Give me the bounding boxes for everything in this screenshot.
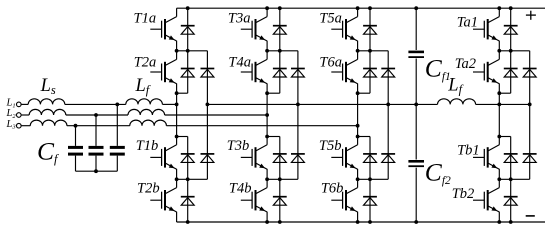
node diode column A leg2 bottom mid [278,177,282,181]
node output leg top rail [497,6,501,10]
wire clamp column B leg1 [206,51,208,180]
node leg1 phase connection [175,103,179,107]
wire leg1 top mid horizontal [177,50,208,52]
wire leg2 collector drop T3b [266,137,268,145]
node tap Cf phase 3 [74,124,78,128]
wire diode column A leg1 top [187,8,189,93]
node leg2 phase connection [265,113,269,117]
svg-text:T3a: T3a [228,10,251,26]
wire diode column A leg2 top [279,8,281,93]
diode Dca2 [523,69,537,78]
wire leg3 emitter T5a to mid [357,41,359,51]
inductor coil Lf output [438,99,476,105]
wire leg1 phase to bottom jog [176,104,178,136]
wire Lf to output leg [476,103,500,105]
node tap Cf phase 2 [94,113,98,117]
diode Dc1b [201,154,215,163]
diode D6a [363,69,377,78]
node diode column A output mid [509,49,513,53]
wire Ls to Lf phase 3 [67,125,130,127]
transistor T1b [150,145,176,169]
diode D3b [273,154,287,163]
inductor coil Ls phase 1 [28,99,65,105]
node leg2 bottom jog [265,135,269,139]
wire leg2 jog horizontal [267,92,280,94]
node centre rail top [414,6,418,10]
wire output leg top mid horizontal [499,50,529,52]
wire output leg collector drop Tb1 [498,137,500,145]
node diode column A output top rail [509,6,513,10]
wire Ls to Lf phase 1 [65,103,126,105]
wire terminal L1 to Ls [21,103,28,105]
wire leg3 bottom mid horizontal [358,178,389,180]
svg-text:T3b: T3b [227,138,250,154]
input terminal L2 [17,113,22,118]
wire leg1 bottom mid horizontal [177,178,208,180]
node clamp leg3 on midpoint line [386,103,390,107]
svg-text:T5b: T5b [319,138,342,154]
wire centre rail upper [415,8,417,50]
svg-text:T1b: T1b [136,138,159,154]
wire leg3 collector drop T5a [357,8,359,16]
wire leg2 bottom jog horizontal [267,136,280,138]
node leg1 top mid [175,49,179,53]
wire leg1 mid to T2a [176,51,178,60]
wire centre rail lower [415,168,417,222]
wire tap to Cf cap 1 [116,104,118,145]
node leg2 top mid [265,49,269,53]
label + terminal [526,11,536,20]
svg-text:T4b: T4b [229,180,252,196]
diode D2b [181,197,195,206]
wire leg2 collector drop T3a [266,8,268,16]
wire tap to Cf cap 2 [95,115,97,146]
wire Cf cap 3 to star bus [75,156,77,172]
wire leg2 mid to T4b [266,179,268,187]
wire diode column A output bottom [510,137,512,223]
wire diode column A output top [510,8,512,93]
diode Db1 [504,154,518,163]
transistor Tb1 [473,145,499,169]
svg-text:T5a: T5a [319,10,342,26]
diode Da2 [504,69,518,78]
wire terminal L3 to Ls [21,125,30,127]
wire diode column A leg1 bottom [187,137,189,223]
node clamp leg1 on midpoint line [206,103,210,107]
wire leg3 bottom jog horizontal [358,136,370,138]
capacitor Cf2 [408,160,424,167]
wire clamp column B leg2 [297,51,299,180]
wire diode column A leg2 bottom [279,137,281,223]
wire phase 2 to leg2 [165,114,268,116]
diode Dc3a [291,69,305,78]
wire leg1 collector drop T1b [176,137,178,145]
diode Dc5b [381,154,395,163]
svg-text:T2b: T2b [137,180,160,196]
svg-text:Ta1: Ta1 [457,15,478,31]
wire output leg emitter Ta1 to mid [498,41,500,51]
node leg3 emitter on bottom rail [356,220,360,224]
wire output leg midpoint to bottom jog [498,104,500,136]
node leg3 bottom jog [356,135,360,139]
diode D5a [363,26,377,35]
wire leg3 emitter T6b to rail [357,212,359,222]
node leg2 emitter jog [265,91,269,95]
wire output leg mid to Tb2 [498,179,500,187]
wire centre rail middle [415,59,417,160]
node leg3 emitter jog [356,91,360,95]
inductor coil Lf phase 3 [130,120,167,126]
wire output leg emitter Ta2 down [498,84,500,94]
node diode column A output bottom rail [509,220,513,224]
node leg3 top mid [356,49,360,53]
wire output leg emitter Tb2 to rail [498,212,500,222]
node midpoint at centre rail [414,103,418,107]
svg-text:Tb1: Tb1 [457,142,480,158]
diode D5b [363,154,377,163]
wire output leg bottom jog horizontal [499,136,510,138]
wire leg1 collector drop T1a [176,8,178,16]
transistor T3a [241,17,267,41]
wire bottom DC rail [177,221,545,223]
diode D3a [273,26,287,35]
diode D4a [273,69,287,78]
transistor T2a [150,59,176,83]
diode D1b [181,154,195,163]
wire leg1 emitter T2b to rail [176,212,178,222]
transistor T4b [241,188,267,212]
node diode column A leg2 bottom rail [278,220,282,224]
node output leg bottom rail [497,220,501,224]
wire leg2 bottom mid horizontal [267,178,298,180]
node leg3 phase connection [356,124,360,128]
node leg3 collector on top rail [356,6,360,10]
wire leg1 bottom jog horizontal [177,136,188,138]
wire leg2 emitter T4b to rail [266,212,268,222]
capacitor Cf1 [408,51,424,58]
node output leg top mid [497,49,501,53]
node diode column A leg2 top rail [278,6,282,10]
wire leg2 emitter T3a to mid [266,41,268,51]
node diode column A leg1 bottom rail [186,220,190,224]
wire terminal L2 to Ls [21,114,29,116]
inductor coil Ls phase 2 [29,109,66,115]
wire leg1 mid to T2b [176,179,178,187]
wire Cf cap 2 to star bus [95,156,97,172]
wire phase 3 to leg3 [166,125,357,127]
wire output leg mid to Ta2 [498,51,500,60]
node leg1 bottom mid [175,177,179,181]
wire diode column A leg3 top [369,8,371,93]
wire leg1 emitter T2a down [176,84,178,94]
wire midpoint to clamp column B [499,103,529,105]
diode Db2 [504,197,518,206]
capacitor Cf cap phase 2 [89,146,104,156]
inductor coil Lf phase 2 [128,109,165,115]
transistor T6b [331,188,357,212]
node diode column A leg1 top rail [186,6,190,10]
wire output leg jog horizontal [499,92,510,94]
transistor Ta1 [473,17,499,41]
wire clamp line [207,103,416,105]
diode D2a [181,69,195,78]
wire leg3 jog horizontal [358,92,370,94]
wire output leg bottom mid horizontal [499,178,529,180]
svg-text:T1a: T1a [134,10,157,26]
capacitor Cf cap phase 1 [110,146,125,156]
wire Cf star bus [76,170,118,172]
wire leg2 to phase line [266,93,268,115]
node leg2 emitter on bottom rail [265,220,269,224]
node output leg bottom mid [497,177,501,181]
node diode column A leg3 bottom rail [368,220,372,224]
wire leg2 top mid horizontal [267,50,298,52]
wire leg3 mid to T6a [357,51,359,60]
wire leg1 emitter T1b to mid [176,169,178,179]
node diode column A output bottom mid [509,177,513,181]
wire leg3 to phase line [357,93,359,126]
transistor T6a [331,59,357,83]
wire leg3 emitter T5b to mid [357,169,359,179]
wire leg2 emitter T3b to mid [266,169,268,179]
svg-text:T6a: T6a [319,55,342,71]
svg-text:Ta2: Ta2 [455,56,476,72]
label - terminal [526,215,535,217]
input terminal L1 [17,102,22,107]
transistor T4a [241,59,267,83]
svg-text:T4a: T4a [228,55,251,71]
node tap Cf phase 1 [115,103,119,107]
inductor coil Ls phase 3 [30,120,67,126]
wire phase 1 to leg1 [162,103,176,105]
wire clamp column B output [529,51,531,180]
svg-text:T2a: T2a [134,55,157,71]
node diode column A leg3 top rail [368,6,372,10]
diode Da1 [504,26,518,35]
node diode column A leg3 bottom mid [368,177,372,181]
wire output leg emitter Tb1 to mid [498,169,500,179]
node output leg emitter jog [497,91,501,95]
wire leg3 emitter T6a down [357,84,359,94]
transistor Tb2 [473,188,499,212]
svg-text:T6b: T6b [321,180,344,196]
node leg1 bottom jog [175,135,179,139]
node Cf star point [94,169,98,173]
wire top DC rail [177,7,545,9]
wire leg1 to phase line [176,93,178,104]
inductor coil Lf phase 1 [126,99,163,105]
wire leg3 collector drop T5b [357,137,359,145]
transistor T1a [150,17,176,41]
transistor T2b [150,188,176,212]
transistor T5b [331,145,357,169]
svg-text:Tb2: Tb2 [452,186,475,202]
wire leg3 top mid horizontal [358,50,389,52]
node leg1 emitter jog [175,91,179,95]
node clamp leg2 on midpoint line [296,103,300,107]
node output leg bottom jog [497,135,501,139]
wire leg2 mid to T4a [266,51,268,60]
wire output leg to midpoint [498,93,500,104]
diode D1a [181,26,195,35]
diode D4b [273,197,287,206]
transistor T3b [241,145,267,169]
node leg2 collector on top rail [265,6,269,10]
diode Dcb1 [523,154,537,163]
wire midpoint to Lf [416,103,437,105]
diode Dc3b [291,154,305,163]
node clamp column B on midpoint line [528,103,532,107]
wire Cf cap 1 to star bus [116,156,118,172]
wire clamp column B leg3 [387,51,389,180]
wire leg2 emitter T4a down [266,84,268,94]
node diode column A leg2 mid [278,49,282,53]
node diode column A leg1 mid [186,49,190,53]
wire leg3 phase to bottom jog [357,126,359,137]
node leg3 bottom mid [356,177,360,181]
transistor T5a [331,17,357,41]
wire leg1 emitter T1a to mid [176,41,178,51]
node diode column A leg3 mid [368,49,372,53]
node leg2 bottom mid [265,177,269,181]
transistor Ta2 [473,59,499,83]
wire diode column A leg3 bottom [369,137,371,223]
wire leg3 mid to T6b [357,179,359,187]
input terminal L3 [17,123,22,128]
diode Dc1a [201,69,215,78]
node output leg midpoint [497,103,501,107]
node centre rail bottom [414,220,418,224]
diode Dc5a [381,69,395,78]
node diode column A leg1 bottom mid [186,177,190,181]
wire leg1 jog horizontal [177,92,188,94]
capacitor Cf cap phase 3 [68,146,83,156]
wire output leg collector drop Ta1 [498,8,500,16]
wire Ls to Lf phase 2 [66,114,128,116]
wire tap to Cf cap 3 [75,126,77,146]
wire leg2 phase to bottom jog [266,115,268,137]
diode D6b [363,197,377,206]
